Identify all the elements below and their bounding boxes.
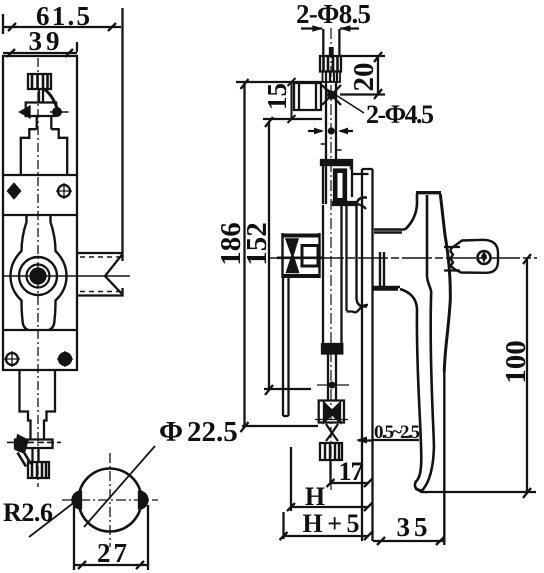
latch plate side [277,233,322,278]
svg-text:15: 15 [262,83,292,110]
side bracket rect [294,83,321,110]
cylinder circle outer [19,257,57,295]
handle front edge [422,195,434,490]
dim 61.5 right extension [121,8,123,253]
dim 186 bottom extension [242,425,318,427]
dim 100 line [523,254,531,498]
shaft cam cap [322,344,342,354]
shaft mid [323,205,342,344]
shaft lower thin [328,354,336,401]
latch tongue front [77,253,123,296]
bracket left blob [16,436,28,453]
bottom nut hatched [28,462,49,478]
dim 0.5-2.5 underline+arrow [358,439,419,442]
keyhole ring [478,251,491,264]
svg-text:17: 17 [339,457,364,486]
R2.6 leader [29,501,76,537]
right bump R2.6 [139,492,148,509]
handle head top [416,191,441,194]
band1 left hole (filled diamond) [8,184,20,198]
dim H+5 line [280,532,373,540]
dim H+5 extension [282,512,284,539]
door plate [362,169,373,541]
svg-text:Φ22.5: Φ22.5 [159,416,238,448]
dim 61.5 line [3,23,121,31]
dim 2-phi8.5 arrows [301,27,359,29]
band2 left hole (circle cross) [4,351,20,367]
dim 152 bottom extension [264,388,311,390]
bolt shaft top [323,29,339,56]
band2 right hole (filled circle) [57,351,73,367]
lower bowtie [326,424,338,441]
housing block [321,160,352,204]
handle outer edge [440,194,450,372]
dim H extension [290,447,292,511]
ext line y82 [236,81,322,83]
lower neck [20,370,56,439]
dim 39 right extension [76,42,78,52]
shaft dash marks [321,144,342,150]
top nut (hatched) [28,74,51,89]
bottom nut hatched [320,443,342,460]
dim 17 bracket [331,460,369,483]
handle centerline [270,257,537,259]
dim 20 line [374,52,382,99]
dim 61.5 left extension [2,14,4,34]
detail crosshair [62,453,158,547]
ext line y119 [263,118,322,120]
lock case flange [347,174,369,312]
shaft centerline [330,28,332,490]
cylinder vase outline [11,216,67,330]
curved diagonal [44,89,58,110]
phi 22.5 leader [84,446,155,527]
key shank lines [444,247,460,271]
housing bottom bar [333,202,357,205]
svg-text:152: 152 [241,222,273,266]
shaft dot [329,382,336,389]
bolt head hatched [320,56,341,72]
shaft upper [326,82,336,160]
svg-text:2-Φ8.5: 2-Φ8.5 [296,0,371,29]
cylinder circle mid [27,265,50,288]
horizontal centerline front [2,275,130,277]
dim 15 line [288,78,296,123]
vertical centerline [37,58,39,487]
key bow outline [451,240,499,273]
dim 2-phi4.5 leader [325,88,364,113]
dim 27 extensions [74,505,148,570]
stepped base block [21,129,67,175]
bracket hooks [18,450,32,467]
dim 17 ticks [327,479,373,487]
body divider lines [3,175,77,330]
band1 right hole (circle cross) [56,183,72,199]
cylinder center filled [31,269,46,284]
shaft tick y385 [317,384,349,386]
dim 39 line [3,49,77,57]
detail circle [79,469,142,532]
upper block with arrow [21,103,69,118]
X weld mark [322,85,341,105]
handle base neck [373,230,405,290]
dim 100 bottom extension [420,491,536,493]
dim H line [287,503,372,511]
keyhole slot [481,252,487,264]
handle inner back edge [400,289,422,491]
dim 186 line [241,79,249,432]
body outer rectangle [3,56,77,370]
svg-text:2-Φ4.5: 2-Φ4.5 [366,100,434,129]
svg-text:20: 20 [348,63,380,92]
thread hatch [323,72,341,83]
svg-text:R2.6: R2.6 [3,498,53,527]
bracket centerline ticks [7,441,61,443]
handle outline left [405,194,417,230]
mid stem [37,116,52,129]
tick y419 [315,419,348,421]
escutcheon rounded edge [357,198,368,307]
case corner arc [357,204,367,209]
dim 35 right extension [443,372,445,545]
top stem [39,89,43,103]
latch plate tail [283,278,289,416]
left bump R2.6 [73,492,81,509]
dim 152 line [265,117,273,395]
dim 35 line [373,537,444,545]
phi4.5 arrows [308,130,353,132]
dim 20 bracket [340,56,385,95]
dim 27 line [74,561,148,569]
spindle hub [380,252,384,288]
bracket bar [15,440,53,449]
lower stem [33,448,39,463]
svg-text:H: H [305,482,325,511]
lower bracket [319,401,344,423]
phi4.5 hole dot [328,127,335,134]
handle hook bottom face [415,489,427,493]
svg-text:100: 100 [500,340,532,384]
svg-text:H+5: H+5 [303,509,360,538]
